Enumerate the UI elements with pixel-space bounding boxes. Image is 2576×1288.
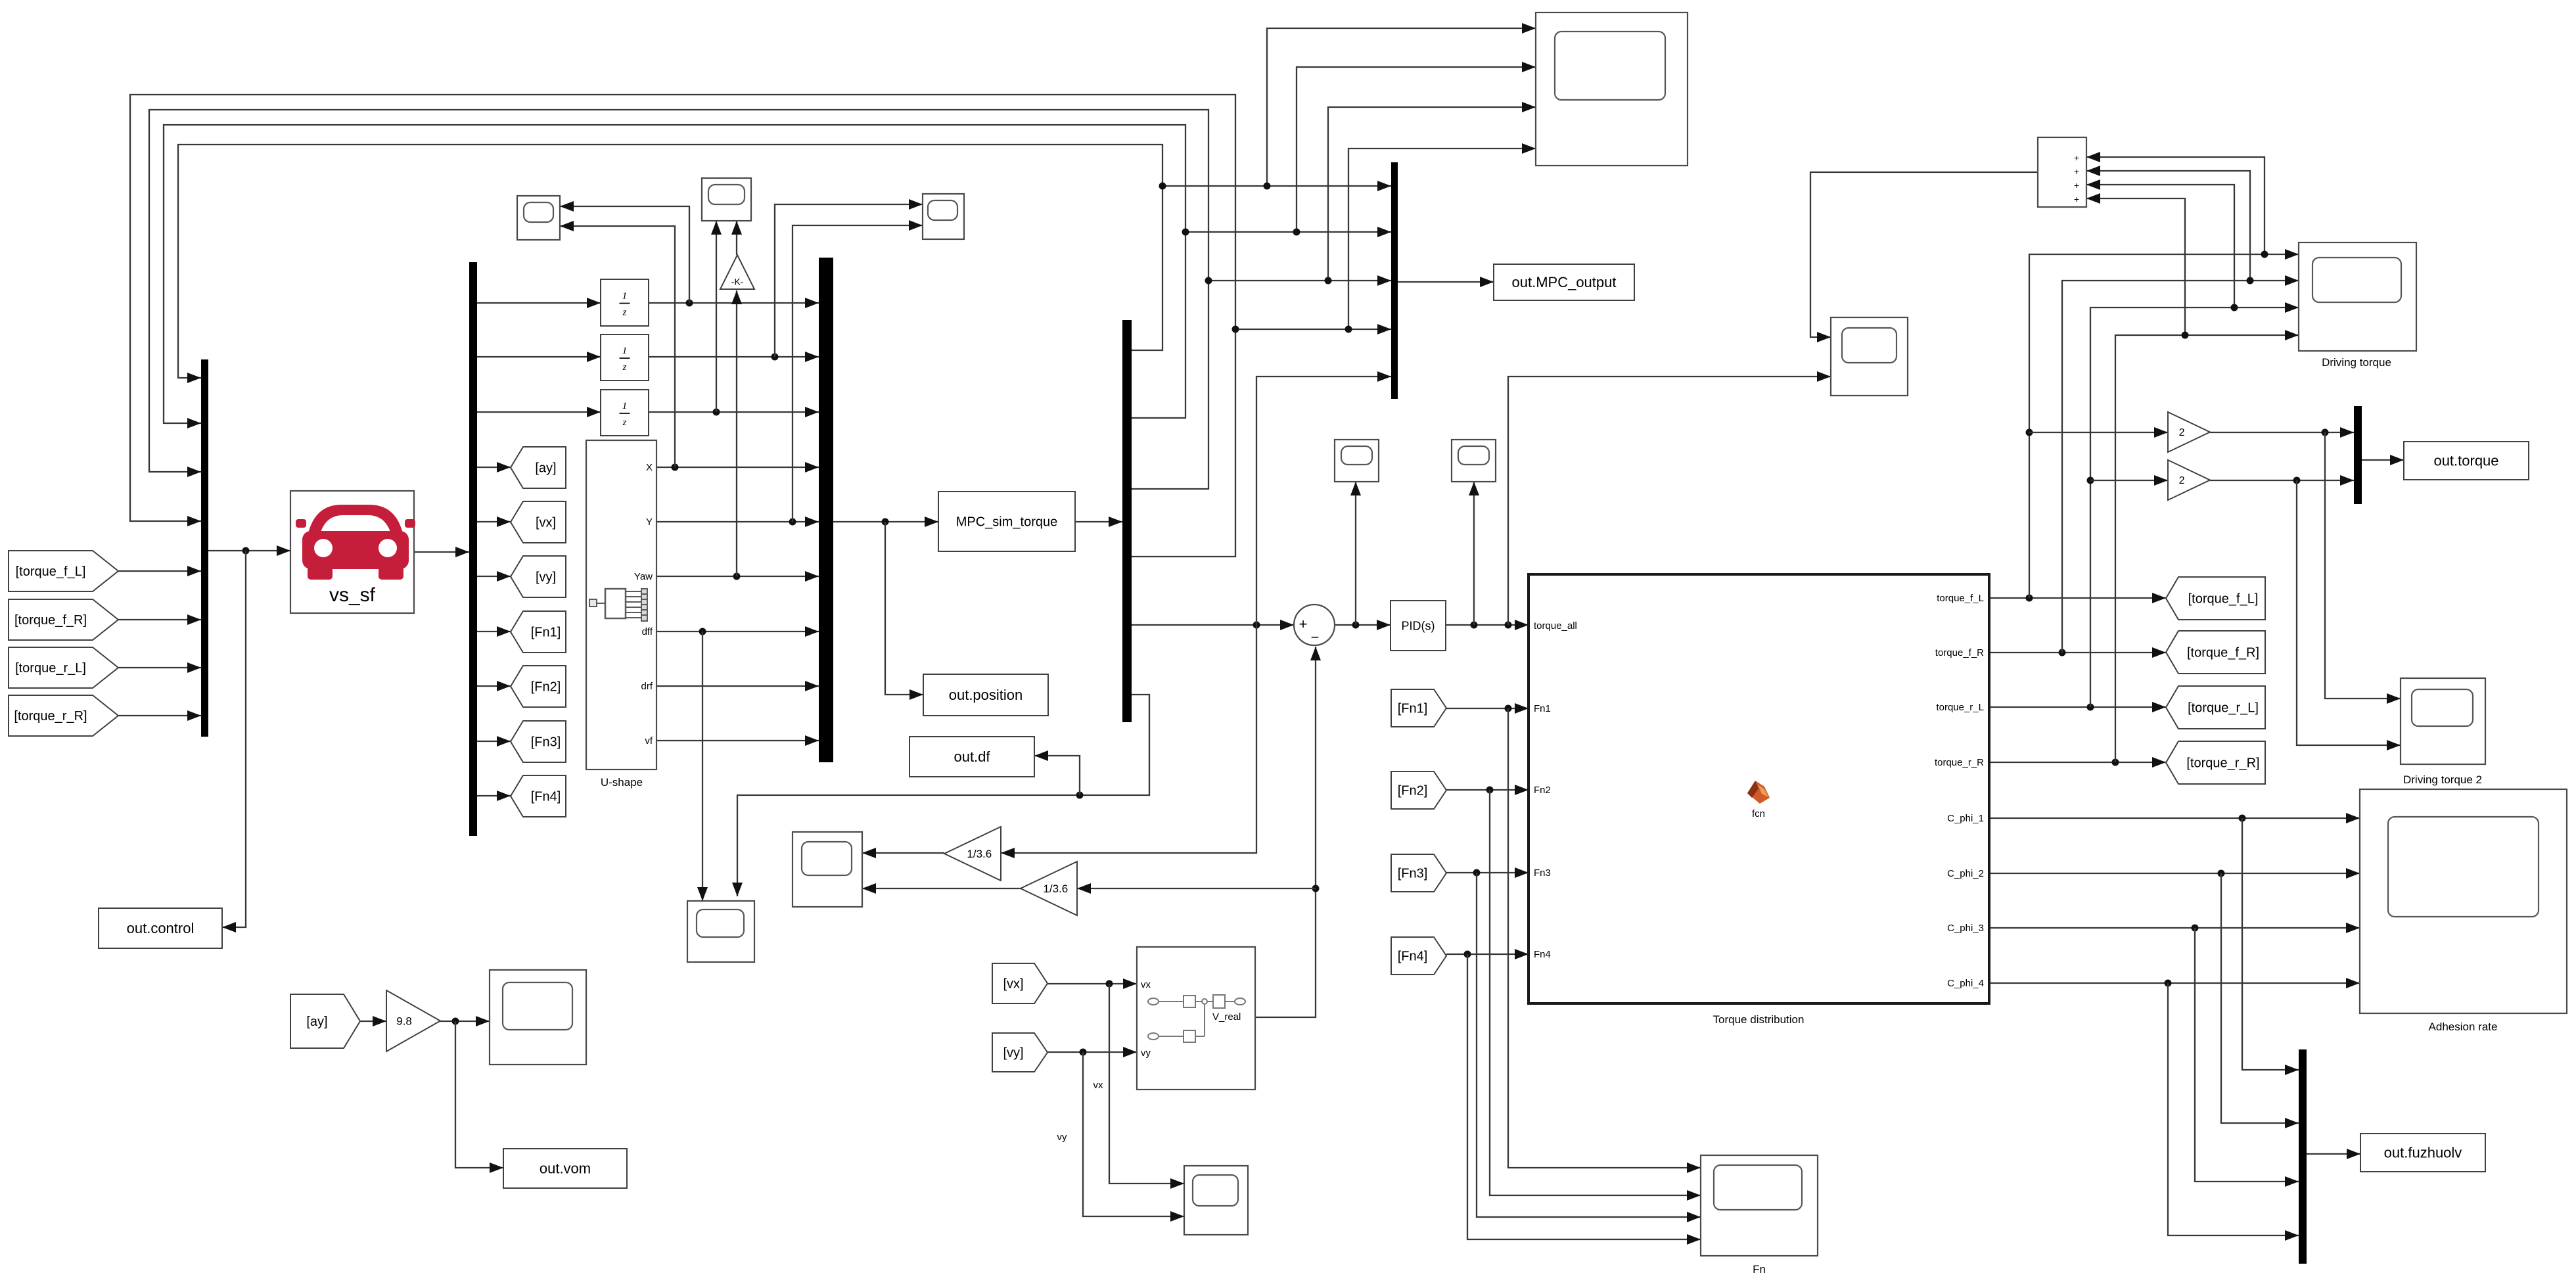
wire C_phi_2 to Adhesion rate in2 [1989, 873, 2360, 874]
node tap Cphi1 [2239, 815, 2246, 822]
wire [vy] to V_real vy [1047, 1051, 1137, 1053]
svg-text:Fn3: Fn3 [1534, 867, 1551, 879]
demux D2 [1122, 320, 1132, 722]
node tap Cphi4 [2165, 980, 2172, 987]
svg-text:−: − [1311, 629, 1320, 645]
scope Driving torque [2299, 242, 2416, 351]
wire mux M1 out to vs_sf [208, 550, 290, 551]
node add tap3 [2231, 304, 2238, 311]
node tap Y [789, 518, 796, 526]
svg-text:fcn: fcn [1752, 808, 1765, 819]
svg-text:X: X [646, 462, 653, 473]
svg-text:PID(s): PID(s) [1402, 619, 1435, 632]
goto tag [Fn1] [511, 611, 566, 653]
scope S1 [517, 196, 560, 240]
node row1 start [1159, 183, 1166, 190]
node tap V_real [1312, 885, 1320, 892]
mux M1 [201, 359, 208, 737]
wire row3 tap to big scope in3 [1328, 107, 1536, 281]
svg-text:C_phi_2: C_phi_2 [1947, 868, 1984, 879]
node tap Cphi2 [2218, 870, 2225, 877]
goto tag [torque_r_R] [2166, 741, 2265, 784]
wire U-shape drf to mux M2 in8 [656, 685, 819, 687]
svg-text:[torque_f_L]: [torque_f_L] [16, 564, 86, 579]
PID controller PID(s) [1391, 601, 1446, 651]
wire gain 9.8 out to scope S10 [440, 1021, 490, 1022]
from tag [ay] 2 [290, 994, 360, 1048]
wire feedback row1 bar4-out1 to mux M1 in1 [178, 145, 1162, 378]
svg-text:vy: vy [1141, 1047, 1151, 1059]
wire U-shape dff to mux M2 in7 [656, 631, 819, 632]
svg-text:[Fn1]: [Fn1] [531, 626, 561, 640]
svg-text:vx: vx [1093, 1080, 1104, 1091]
svg-text:9.8: 9.8 [396, 1015, 412, 1027]
wire torque_f_L out to goto [1989, 597, 2166, 599]
scope S3 [923, 194, 964, 239]
svg-text:[torque_f_R]: [torque_f_R] [2187, 646, 2259, 660]
svg-text:Driving torque 2: Driving torque 2 [2403, 773, 2482, 786]
from tag [vy] [992, 1033, 1047, 1072]
wire [torque_r_L] to mux M1 in7 [118, 667, 201, 668]
node tap z1 [686, 300, 693, 307]
wire row tap to Add in2 [2086, 171, 2250, 281]
wire row2 to mux M3 in2 [1185, 231, 1391, 233]
svg-text:vy: vy [1057, 1132, 1068, 1143]
wire Fn4 tap to scope Fn in4 [1467, 954, 1701, 1239]
node tap trL [2087, 704, 2094, 711]
svg-text:[ay]: [ay] [306, 1015, 327, 1029]
to-workspace out.df [909, 737, 1034, 777]
wire Cphi2 tap to mux M4 in2 [2221, 873, 2299, 1123]
wire D1 out1 to unit delay 1 [477, 302, 601, 304]
wire row tap to Add in3 [2086, 185, 2234, 308]
gain 1/3.6 a [944, 827, 1001, 881]
demux D1 [469, 262, 477, 836]
wire tap to scope S8 in2 [1508, 377, 1831, 625]
svg-text:Adhesion rate: Adhesion rate [2429, 1021, 2498, 1033]
scope S6 [1335, 440, 1379, 482]
svg-text:[Fn2]: [Fn2] [531, 680, 561, 695]
scope Driving torque 2 [2401, 678, 2485, 764]
node tap 9.8 [452, 1018, 459, 1025]
subsystem V_real [1137, 947, 1255, 1090]
svg-text:out.position: out.position [949, 687, 1023, 703]
wire dff tap down to scope S4 in1 [702, 632, 703, 901]
node tap Cphi3 [2192, 925, 2199, 932]
wire [torque_f_L] to mux M1 in5 [118, 570, 201, 572]
svg-text:torque_f_R: torque_f_R [1935, 647, 1984, 658]
scope S8 [1831, 317, 1908, 396]
svg-text:Fn4: Fn4 [1534, 949, 1551, 960]
wire [Fn4] to Fn4 port [1446, 954, 1529, 955]
wire [torque_f_R] to mux M1 in6 [118, 619, 201, 620]
wire D1 out4 to goto [ay] [477, 467, 511, 468]
scope Fn [1701, 1155, 1818, 1256]
goto tag [Fn4] [511, 775, 566, 817]
gain 1/3.6 b [1021, 862, 1077, 915]
wire torque_f_R out to goto [1989, 652, 2166, 653]
node tap trR [2112, 759, 2119, 766]
node tap to scope S8 [1505, 622, 1512, 629]
svg-text:vf: vf [645, 735, 653, 747]
svg-text:out.control: out.control [127, 920, 195, 936]
svg-text:[torque_r_L]: [torque_r_L] [2188, 701, 2259, 716]
from tag [torque_r_R] [9, 695, 118, 736]
unit delay 1/z #1 [601, 279, 649, 326]
subsystem vs_sf with car icon [290, 491, 415, 613]
svg-text:z: z [622, 417, 627, 428]
wire feedback row4 bar4-out4 to mux M1 in4 [130, 95, 1235, 557]
wire PID(s) out to torque_all [1446, 624, 1529, 626]
gain 2b [2168, 460, 2210, 500]
wire U-shape X to mux M2 in4 [656, 467, 819, 468]
wire unit delay 2 out to mux M2 in2 [649, 356, 819, 357]
svg-text:Fn2: Fn2 [1534, 785, 1551, 796]
from tag [Fn3] [1391, 854, 1446, 892]
svg-text:torque_r_R: torque_r_R [1935, 757, 1984, 768]
wire tap up to mux M3 in5 [1256, 377, 1391, 625]
node tap torque_all ref [1253, 622, 1260, 629]
from tag [torque_f_L] [9, 551, 118, 591]
svg-text:[Fn3]: [Fn3] [1398, 867, 1428, 881]
wire [vx] to V_real vx [1047, 983, 1137, 984]
from tag [Fn1] [1391, 689, 1446, 727]
svg-text:out.torque: out.torque [2433, 453, 2498, 469]
wire tap to gain 2b [2090, 480, 2168, 481]
wire mux M2 out to MPC_sim_torque [833, 521, 938, 522]
svg-text:[torque_r_R]: [torque_r_R] [2186, 756, 2259, 771]
svg-text:1: 1 [622, 401, 628, 411]
wire sum out to PID(s) [1335, 624, 1391, 626]
scope S2 [702, 178, 751, 221]
svg-text:Y: Y [646, 517, 653, 528]
wire V_real out up to sum minus [1255, 647, 1316, 1017]
from tag [torque_r_L] [9, 647, 118, 688]
svg-text:dff: dff [642, 626, 653, 637]
wire D2 out5 to sum [1132, 624, 1294, 626]
wire tap up to scope S7 [1473, 482, 1475, 625]
svg-text:+: + [2074, 152, 2079, 163]
svg-text:MPC_sim_torque: MPC_sim_torque [956, 515, 1058, 530]
scope S9 [1184, 1166, 1248, 1235]
svg-text:C_phi_3: C_phi_3 [1947, 923, 1984, 934]
node tap X [672, 464, 679, 471]
node tap z3 [713, 409, 720, 416]
to-workspace out.MPC_output [1494, 264, 1634, 300]
svg-text:[Fn3]: [Fn3] [531, 735, 561, 750]
svg-text:[vx]: [vx] [536, 516, 556, 530]
svg-text:1: 1 [622, 291, 628, 302]
wire gain 1/3.6 a out to scope S5 in1 [862, 852, 944, 854]
node row3 start [1205, 277, 1212, 285]
mux M3 [1391, 162, 1398, 399]
wire Cphi1 tap to mux M4 in1 [2242, 818, 2299, 1070]
goto tag [torque_f_R] [2166, 631, 2265, 674]
node tap g2b [2293, 477, 2301, 484]
wire tap to gain 2a [2029, 432, 2168, 433]
node tap Fn2 [1486, 787, 1494, 794]
wire D1 out9 to goto [Fn3] [477, 741, 511, 742]
node tap Fn3 [1473, 869, 1481, 877]
wire tap to Driving torque 2 in1 [2325, 432, 2401, 699]
svg-text:1/3.6: 1/3.6 [1043, 883, 1068, 895]
wire [torque_r_R] to mux M1 in8 [118, 715, 201, 716]
wire tap up to scope S6 [1355, 482, 1356, 625]
gain 9.8 [386, 990, 440, 1051]
wire row3 to mux M3 in3 [1208, 280, 1391, 281]
mux M4 [2299, 1049, 2307, 1264]
wire U-shape Y to mux M2 in5 [656, 521, 819, 522]
node tap Fn4 [1464, 951, 1471, 958]
wire gain 2a out to mux M5 in1 [2210, 432, 2354, 433]
svg-text:Fn: Fn [1753, 1263, 1766, 1276]
svg-text:+: + [2074, 194, 2079, 204]
wire tap down to out.control [222, 551, 246, 927]
node tap to out.position [882, 518, 889, 526]
to-workspace out.vom [503, 1149, 627, 1188]
subsystem U-shape [586, 440, 656, 770]
wire D1 out2 to unit delay 2 [477, 356, 601, 357]
svg-text:Fn1: Fn1 [1534, 703, 1551, 714]
svg-text:+: + [2074, 180, 2079, 191]
wire tfL up to Driving torque in1 [2029, 254, 2299, 598]
wire Fn3 tap to scope Fn in3 [1477, 873, 1701, 1217]
subsystem MPC_sim_torque [938, 492, 1075, 551]
to-workspace out.torque [2404, 442, 2529, 480]
node tap row1 [1264, 183, 1271, 190]
unit delay 1/z #3 [601, 390, 649, 436]
gain -K- [720, 255, 754, 289]
svg-text:vs_sf: vs_sf [329, 584, 376, 606]
from tag [vx] [992, 963, 1047, 1003]
node tap to scope S7 [1471, 622, 1478, 629]
svg-text:Yaw: Yaw [634, 571, 653, 582]
svg-text:C_phi_4: C_phi_4 [1947, 978, 1984, 989]
wire gain -K- out to scope S2 in2 [736, 221, 737, 255]
sum block Add [2038, 137, 2086, 207]
wire mux M3 out to out.MPC_output [1398, 281, 1494, 283]
wire tap to out.position [885, 522, 923, 695]
wire D1 out8 to goto [Fn2] [477, 685, 511, 687]
from tag [Fn4] [1391, 937, 1446, 975]
wire [Fn1] to Fn1 port [1446, 708, 1529, 709]
wire Fn1 tap to scope Fn in1 [1508, 708, 1701, 1168]
wire X tap to scope S1 in2 [560, 226, 675, 467]
node tap Fn1 [1505, 705, 1512, 712]
wire row2 tap to big scope in2 [1297, 67, 1536, 232]
svg-text:[torque_f_L]: [torque_f_L] [2188, 592, 2259, 607]
wire z2 tap to scope S3 in1 [775, 204, 923, 357]
wire [ay] to gain 9.8 [360, 1021, 386, 1022]
wire trL up to Driving torque in3 [2090, 308, 2299, 707]
wire U-shape vf to mux M2 in9 [656, 740, 819, 741]
node tap vx [1106, 980, 1113, 988]
svg-text:2: 2 [2179, 475, 2185, 486]
gain 2a [2168, 412, 2210, 452]
wire mux M5 out to out.torque [2362, 459, 2404, 461]
svg-text:[vy]: [vy] [536, 570, 556, 585]
svg-text:2: 2 [2179, 427, 2185, 438]
wire vx tap to scope S9 in1 [1109, 984, 1184, 1184]
from tag [torque_f_R] [9, 599, 118, 640]
wire C_phi_4 to Adhesion rate in4 [1989, 982, 2360, 984]
wire Cphi3 tap to mux M4 in3 [2195, 928, 2299, 1182]
svg-text:vx: vx [1141, 979, 1151, 990]
wire Yaw tap up to gain -K- [736, 290, 737, 576]
svg-text:z: z [622, 308, 627, 318]
svg-text:Driving torque: Driving torque [2322, 356, 2391, 369]
scope S10 [490, 970, 586, 1065]
svg-text:-K-: -K- [731, 277, 744, 287]
wire feedback row2 bar4-out2 to mux M1 in2 [164, 125, 1185, 423]
node tap row4 [1345, 326, 1352, 333]
scope Adhesion rate [2360, 789, 2567, 1013]
node tap to scope S6 [1352, 622, 1360, 629]
svg-text:drf: drf [641, 681, 653, 692]
wire tap to Driving torque 2 in2 [2297, 480, 2401, 745]
svg-text:V_real: V_real [1212, 1011, 1241, 1023]
to-workspace out.fuzhuolv [2360, 1134, 2485, 1172]
scope S5 [793, 832, 862, 907]
to-workspace out.control [99, 908, 222, 948]
svg-text:+: + [2074, 166, 2079, 177]
node tap to gain2a [2026, 429, 2033, 436]
wire vy tap to scope S9 in2 [1083, 1052, 1184, 1216]
svg-text:[ay]: [ay] [535, 461, 556, 476]
wire MPC_sim_torque out to demux D2 [1075, 521, 1122, 522]
unit delay 1/z #2 [601, 334, 649, 380]
wire feedback row3 bar4-out3 to mux M1 in3 [149, 110, 1208, 489]
node tap vy [1080, 1049, 1087, 1056]
wire C_phi_3 to Adhesion rate in3 [1989, 927, 2360, 929]
wire C_phi_1 to Adhesion rate in1 [1989, 817, 2360, 819]
wire gain 2b out to mux M5 in2 [2210, 480, 2354, 481]
svg-text:1/3.6: 1/3.6 [967, 848, 992, 860]
wire tap df to out.df [1034, 756, 1080, 795]
wire [Fn3] to Fn3 port [1446, 872, 1529, 873]
node tap to gain2b [2087, 477, 2094, 484]
from tag [Fn2] [1391, 771, 1446, 809]
wire mux M4 out to out.fuzhuolv [2307, 1153, 2360, 1155]
scope S7 [1452, 440, 1496, 482]
scope S4 [687, 901, 754, 962]
svg-text:U-shape: U-shape [601, 776, 643, 789]
wire row4 to mux M3 in4 [1235, 329, 1391, 330]
mux M5 [2354, 406, 2362, 504]
wire D1 out3 to unit delay 3 [477, 411, 601, 413]
wire row1 to mux M3 in1 [1162, 185, 1391, 187]
svg-text:[vy]: [vy] [1003, 1046, 1023, 1061]
node add tap2 [2247, 277, 2254, 285]
wire tfR up to Driving torque in2 [2062, 281, 2299, 653]
svg-text:[torque_r_L]: [torque_r_L] [15, 661, 86, 676]
wire tap to gain 1/3.6 b [1077, 888, 1316, 889]
svg-text:out.vom: out.vom [540, 1161, 591, 1177]
node tap tfL [2026, 595, 2033, 602]
svg-text:[Fn2]: [Fn2] [1398, 784, 1428, 798]
wire Add out to scope S8 in1 [1810, 172, 2038, 337]
wire D1 out5 to goto [vx] [477, 521, 511, 522]
wire tap to out.vom [455, 1021, 503, 1168]
sum junction [1294, 605, 1335, 645]
big scope [1536, 12, 1688, 166]
node add tap4 [2182, 332, 2189, 339]
goto tag [ay] [511, 447, 566, 488]
wire torque_r_R out to goto [1989, 762, 2166, 763]
wire z3 tap up to scope S2 in1 [716, 221, 717, 412]
node tap to out.control [242, 547, 250, 555]
wire D1 out6 to goto [vy] [477, 576, 511, 577]
node tap Yaw [733, 573, 741, 580]
wire row4 tap to big scope in4 [1348, 149, 1536, 329]
svg-text:torque_f_L: torque_f_L [1937, 593, 1984, 604]
node add tap1 [2261, 251, 2268, 258]
wire unit delay 3 out to mux M2 in3 [649, 411, 819, 413]
svg-text:Torque distribution: Torque distribution [1713, 1013, 1805, 1026]
goto tag [vy] [511, 556, 566, 597]
wire torque_r_L out to goto [1989, 706, 2166, 708]
svg-text:[Fn1]: [Fn1] [1398, 702, 1428, 716]
goto tag [Fn3] [511, 721, 566, 762]
node tap df [1076, 792, 1084, 799]
svg-text:[torque_f_R]: [torque_f_R] [14, 613, 87, 628]
node tap z2 [771, 354, 779, 361]
mux M2 [819, 258, 833, 762]
node row2 start [1182, 229, 1189, 236]
svg-text:[vx]: [vx] [1003, 977, 1023, 992]
wire gain 1/3.6 b out to scope S5 in2 [862, 888, 1021, 889]
wire D1 out10 to goto [Fn4] [477, 795, 511, 796]
node row4 start [1232, 326, 1239, 333]
svg-text:1: 1 [622, 346, 628, 356]
wire D1 out7 to goto [Fn1] [477, 631, 511, 632]
goto tag [torque_f_L] [2166, 577, 2265, 620]
wire U-shape Yaw to mux M2 in6 [656, 576, 819, 577]
goto tag [Fn2] [511, 666, 566, 707]
wire unit delay 1 out to mux M2 in1 [649, 302, 819, 304]
node tap row3 [1325, 277, 1332, 285]
wire [Fn2] to Fn2 port [1446, 789, 1529, 791]
svg-text:out.fuzhuolv: out.fuzhuolv [2384, 1145, 2462, 1161]
svg-text:z: z [622, 362, 627, 373]
wire Y tap to scope S3 in2 [793, 225, 923, 522]
svg-text:[Fn4]: [Fn4] [531, 790, 561, 804]
node tap row2 [1293, 229, 1300, 236]
node tap dff [699, 628, 706, 635]
subsystem Torque distribution [1529, 574, 1989, 1003]
wire vs_sf out to demux D1 [414, 551, 469, 553]
goto tag [vx] [511, 501, 566, 543]
wire row1 tap to big scope in1 [1267, 28, 1536, 186]
svg-text:out.MPC_output: out.MPC_output [1512, 274, 1617, 290]
wire z1 tap to scope S1 in1 [560, 206, 689, 303]
wire Fn2 tap to scope Fn in2 [1490, 790, 1701, 1195]
svg-text:torque_r_L: torque_r_L [1936, 702, 1984, 713]
svg-text:+: + [1299, 616, 1308, 632]
to-workspace out.position [923, 674, 1048, 716]
node tap tfR [2059, 649, 2066, 656]
wire trR up to Driving torque in4 [2115, 335, 2299, 762]
wire D2 out6 df to scope S4 in2 [737, 695, 1149, 896]
svg-text:out.df: out.df [954, 748, 990, 765]
wire Cphi4 tap to mux M4 in4 [2168, 983, 2299, 1235]
svg-text:C_phi_1: C_phi_1 [1947, 813, 1984, 824]
svg-text:[Fn4]: [Fn4] [1398, 950, 1428, 964]
node tap g2a [2322, 429, 2329, 436]
wire row tap to Add in4 [2086, 198, 2185, 335]
svg-text:torque_all: torque_all [1534, 620, 1577, 632]
svg-text:[torque_r_R]: [torque_r_R] [14, 709, 87, 724]
